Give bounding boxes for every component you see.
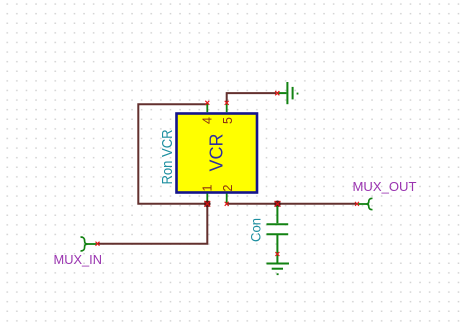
svg-text:VCR: VCR	[207, 133, 227, 171]
capacitor Con	[267, 206, 289, 263]
pin 5	[226, 103, 228, 112]
svg-text:MUX_IN: MUX_IN	[54, 252, 103, 267]
pin 5 hotspot X	[225, 101, 229, 105]
wire: pin 5 up and over to ground	[227, 93, 276, 103]
pin 2	[226, 194, 228, 204]
port MUX_IN (off-sheet connector)	[81, 237, 97, 251]
port MUX_OUT (off-sheet connector)	[358, 198, 373, 209]
junction at pin 1 (node)	[204, 201, 211, 208]
pin 2 hotspot X	[225, 202, 229, 206]
capacitor pin hotspot X	[275, 252, 279, 256]
wire: feedback loop from pin 4 to pin 1 junction	[138, 104, 207, 204]
wire: MUX_IN port to pin 1 junction	[98, 206, 207, 244]
svg-text:4: 4	[201, 117, 215, 124]
wire: pin 2 to capacitor tap to MUX_OUT port	[227, 203, 357, 205]
svg-text:Ron VCR: Ron VCR	[159, 129, 176, 184]
svg-text:5: 5	[221, 117, 235, 124]
MUX_OUT wire-end hotspot X	[355, 202, 359, 206]
svg-text:2: 2	[221, 185, 235, 192]
svg-text:Con: Con	[249, 218, 264, 242]
pin 4	[206, 103, 208, 112]
MUX_IN wire-end hotspot X	[96, 242, 100, 246]
ground at top right (earth)	[277, 82, 298, 104]
component VCR body (yellow rectangle)	[177, 114, 258, 193]
junction at capacitor tap (node)	[274, 201, 281, 208]
svg-text:1: 1	[201, 185, 215, 192]
pin 1	[206, 194, 208, 204]
svg-text:MUX_OUT: MUX_OUT	[353, 179, 417, 194]
pin 4 hotspot X	[205, 101, 209, 105]
ground below capacitor (earth)	[267, 264, 290, 275]
ground wire-end hotspot X	[275, 91, 279, 95]
